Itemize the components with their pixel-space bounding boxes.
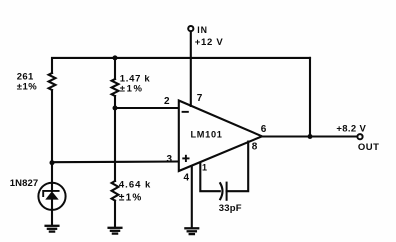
diode D1 cathode zener bar	[43, 191, 58, 196]
input terminal IN	[188, 26, 193, 31]
wire divider node down to 4.64k	[114, 96, 116, 181]
node divider junction to pin 2	[113, 106, 118, 111]
ground under diode	[46, 226, 59, 232]
output terminal OUT	[357, 134, 362, 139]
svg-text:LM101: LM101	[191, 130, 223, 140]
svg-text:33pF: 33pF	[219, 203, 242, 214]
node junction 1.47k top on rail	[113, 55, 118, 60]
node A junction 261/diode/pin3	[50, 160, 55, 165]
node junction rail/output	[308, 134, 313, 139]
svg-text:3: 3	[167, 154, 173, 165]
resistor R2 1.47k	[112, 79, 119, 96]
wire pin 1 down	[200, 163, 220, 191]
svg-text:1: 1	[202, 163, 207, 173]
ground under pin 4	[185, 228, 198, 234]
svg-text:2: 2	[164, 96, 170, 107]
wire cap to pin 8	[227, 142, 249, 192]
svg-text:+12 V: +12 V	[195, 37, 224, 48]
capacitor C1 straight plate	[226, 183, 228, 200]
svg-text:±1%: ±1%	[17, 82, 37, 93]
svg-text:4.64 k: 4.64 k	[119, 180, 151, 191]
op-amp U1 LM101 triangle	[179, 101, 262, 172]
svg-text:±1%: ±1%	[120, 84, 144, 95]
wire rail drop to output	[309, 58, 311, 137]
wire pin 3	[52, 160, 178, 163]
svg-text:4: 4	[184, 173, 190, 184]
wire 4.64k bottom lead	[114, 201, 116, 228]
svg-text:7: 7	[197, 93, 203, 104]
svg-text:1N827: 1N827	[10, 178, 39, 189]
op-amp minus sign	[182, 111, 189, 113]
wire pin 4 to ground	[191, 166, 193, 228]
diode D1 1N827 circle	[38, 183, 65, 210]
diode D1 anode triangle	[45, 191, 58, 199]
wire top feedback rail	[52, 58, 310, 73]
op-amp plus sign	[182, 155, 189, 162]
svg-text:OUT: OUT	[358, 142, 380, 153]
svg-text:IN: IN	[197, 25, 208, 35]
svg-text:6: 6	[261, 124, 267, 135]
resistor R1 261	[49, 73, 56, 90]
resistor R3 4.64k	[112, 181, 119, 201]
svg-text:8: 8	[252, 141, 258, 152]
wire through diode to ground	[51, 200, 53, 226]
capacitor C1 curved plate	[220, 183, 222, 199]
wire 1.47k top lead	[114, 58, 116, 79]
ground under 4.64k	[109, 228, 122, 234]
svg-text:+8.2 V: +8.2 V	[336, 123, 366, 134]
wire output to OUT terminal	[262, 135, 357, 137]
wire IN terminal down to op-amp pin 7	[190, 31, 192, 106]
svg-text:±1%: ±1%	[119, 192, 143, 203]
wire 261 bottom to diode node	[51, 90, 53, 191]
wire pin 2	[115, 107, 178, 109]
